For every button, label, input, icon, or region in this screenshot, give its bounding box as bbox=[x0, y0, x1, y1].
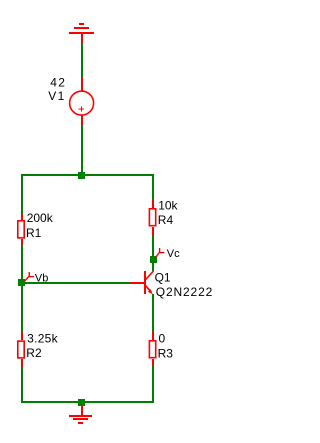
svg-text:42: 42 bbox=[50, 76, 66, 90]
svg-text:0: 0 bbox=[159, 331, 166, 345]
svg-text:V1: V1 bbox=[48, 89, 65, 103]
svg-text:Q1: Q1 bbox=[155, 270, 171, 284]
svg-text:10k: 10k bbox=[158, 199, 178, 213]
svg-text:R4: R4 bbox=[158, 213, 174, 227]
svg-text:R3: R3 bbox=[158, 346, 174, 360]
svg-text:Vb: Vb bbox=[35, 272, 48, 284]
svg-text:Vc: Vc bbox=[167, 248, 180, 260]
svg-text:R2: R2 bbox=[26, 346, 42, 360]
svg-text:3.25k: 3.25k bbox=[27, 332, 59, 346]
svg-text:200k: 200k bbox=[27, 211, 54, 225]
svg-text:R1: R1 bbox=[26, 226, 42, 240]
svg-text:Q2N2222: Q2N2222 bbox=[156, 285, 213, 299]
